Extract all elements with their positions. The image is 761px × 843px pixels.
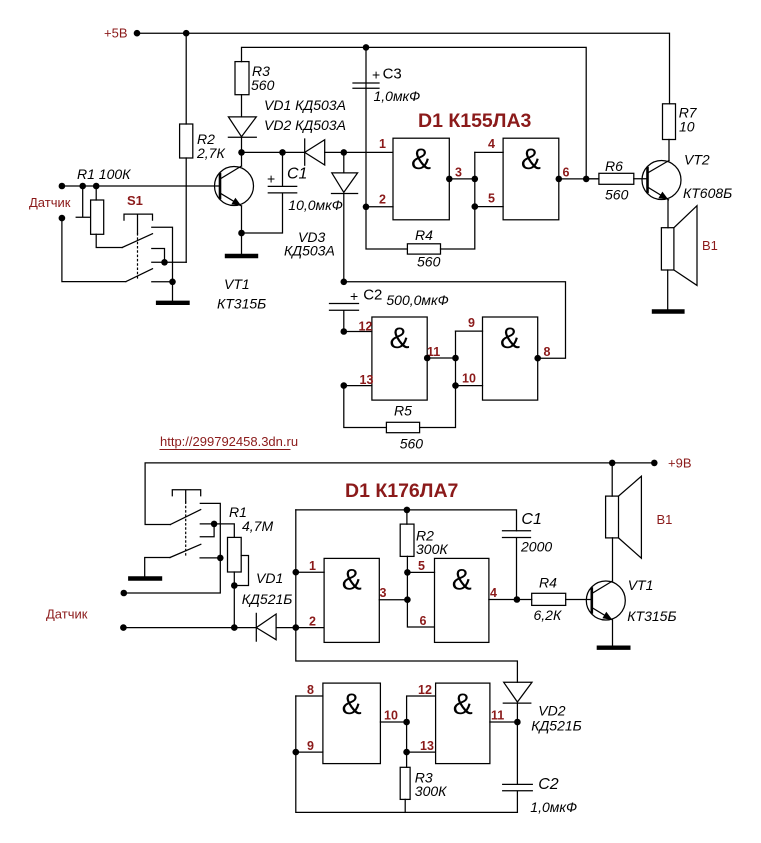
svg-text:КД503А: КД503А [284,243,335,259]
svg-text:VD1 КД503А: VD1 КД503А [264,97,346,113]
svg-text:&: & [342,688,362,721]
wire VD1 to pin 2 [276,627,324,629]
wire VD3 to C2 node [343,194,345,282]
svg-text:8: 8 [544,345,551,359]
pin 12 [341,320,373,335]
svg-text:С2: С2 [538,776,559,793]
pole1 upper contact to terminal wire [124,503,221,593]
node pin2/C3 junction [363,204,370,211]
capacitor C2 1,0mkF (bottom) [503,722,577,815]
svg-text:6: 6 [420,614,427,628]
wire R1 bottom to sensor wire [233,572,235,628]
svg-text:VD2 КД503А: VD2 КД503А [264,117,346,133]
svg-text:300К: 300К [416,541,448,557]
svg-text:10: 10 [462,372,476,386]
svg-text:13: 13 [360,373,374,387]
svg-text:&: & [521,143,541,176]
node VD3 anode junction [341,149,348,156]
pin 9 [456,316,483,331]
node C3 top junction [363,44,370,51]
sensor terminal lower (Datchik, bottom) [46,607,127,631]
wire +5V rail [137,33,670,104]
svg-text:&: & [411,143,431,176]
svg-text:1: 1 [309,559,316,573]
wire VT1 emitter to ground [241,206,243,254]
pin 13 [341,373,374,389]
svg-text:R1 100К: R1 100К [77,166,131,182]
svg-text:КД521Б: КД521Б [531,718,582,734]
gate D1.3 [372,317,427,400]
wire output net rail (R3/C3 to pin6) [242,47,587,179]
svg-text:300К: 300К [415,783,447,799]
pin 10 [380,709,410,726]
pin 11 [490,709,521,726]
wire VT1 emitter to ground [612,620,614,646]
svg-text:4: 4 [490,586,497,600]
wire pin11 to pins 9/10 [455,331,457,386]
S1 pole2 lower contact [152,281,173,283]
svg-text:D1 К155ЛА3: D1 К155ЛА3 [418,110,532,132]
svg-text:VT2: VT2 [684,152,710,168]
svg-text:КТ315Б: КТ315Б [627,608,676,624]
node R1 top junction [93,183,100,190]
svg-text:С1: С1 [287,166,307,183]
S1 pole2 upper contact wire to R2 branch [152,261,186,263]
wire C3 to pin2 node [365,88,367,207]
svg-text:D1 К176ЛА7: D1 К176ЛА7 [345,480,458,502]
sensor terminal upper (Datchik) [29,183,71,210]
svg-text:Датчик: Датчик [46,607,88,622]
pin 1 (bottom) [293,559,325,576]
node C1 top junction [279,149,286,156]
svg-text:4,7М: 4,7М [242,518,273,534]
power terminal +5V [104,26,140,41]
pin 5 [407,559,434,573]
transistor VT1 KT315B (bottom) [586,577,676,624]
pin 6 [556,166,599,183]
svg-text:5: 5 [488,192,495,206]
gate D1.1 [393,138,449,220]
resistor R7 10 [663,104,698,140]
ground at switch (bottom) [130,576,160,580]
node ground-side contact junction [217,555,224,562]
svg-text:VD2: VD2 [538,703,565,719]
svg-text:4: 4 [488,137,495,151]
capacitor C2 500mkF [330,287,449,332]
svg-text:Датчик: Датчик [29,195,71,210]
capacitor C1 [242,152,343,233]
svg-text:6: 6 [563,166,570,180]
S1 pole1 lower contact [152,249,165,263]
resistor R1 4,7M [228,504,274,572]
svg-text:12: 12 [418,683,432,697]
gate D1.3 (bottom) [323,683,381,764]
resistor R3 300K (bottom) [400,767,447,812]
svg-text:13: 13 [420,739,434,753]
wire R1 bottom to S1 pole1 arm [96,234,122,247]
svg-text:2: 2 [309,615,316,629]
R1 wiper tap [234,556,248,586]
resistor R2 300K [400,524,448,557]
capacitor C3 [353,47,420,104]
svg-text:10: 10 [679,119,695,135]
pole2 lower contact [200,557,220,559]
ground under S1 [158,301,187,305]
switch S1 [122,193,152,282]
node wiper junction [79,183,86,190]
svg-text:R5: R5 [394,403,412,419]
wire sensor terminal to VD1 [123,627,256,629]
wire pin3 to pins 4/5 [474,152,476,206]
wire pins 8/9 left vertical to bottom rail [296,696,518,812]
svg-text:+9В: +9В [668,456,692,471]
svg-text:6,2К: 6,2К [534,607,562,623]
wire pin10 node vertical (pin12 / pin13 / R3) [407,696,436,767]
wire lower terminal to S1 pole2 arm [62,218,126,282]
svg-text:VT1: VT1 [224,276,250,292]
diode VD1 KD503A [228,97,346,137]
svg-text:+: + [267,171,275,187]
wire top rail of IC (pins 1, R2, C1) [296,510,517,531]
svg-text:R6: R6 [605,158,623,174]
gate D1.2 (bottom) [435,558,489,642]
node speaker branch junction [609,460,616,467]
wire R7 to VT2 collector [668,140,670,161]
svg-text:3: 3 [455,166,462,180]
svg-text:5: 5 [418,559,425,573]
switch S (bottom) [170,490,201,558]
node pole2 contact junction [211,521,218,528]
diode VD2 KD503A [264,117,346,165]
svg-text:VD1: VD1 [256,570,283,586]
resistor R4 560 feedback [366,207,475,270]
node C2 top junction [341,279,348,286]
resistor R6 560 [586,158,647,203]
R1 wiper tap [76,186,90,217]
resistor R2 2,7K [180,124,226,161]
svg-text:B1: B1 [702,238,718,253]
pin 13 [403,739,435,755]
svg-text:10,0мкФ: 10,0мкФ [288,197,343,213]
node R1 bottom junction [231,582,238,589]
wire VT1 collector [241,152,243,166]
svg-text:1,0мкФ: 1,0мкФ [374,88,421,104]
svg-text:&: & [342,563,362,596]
svg-text:8: 8 [307,683,314,697]
gate D1.4 (bottom) [436,683,490,764]
svg-text:КТ608Б: КТ608Б [683,185,732,201]
resistor R4 6,2K [532,575,592,624]
svg-text:9: 9 [307,739,314,753]
svg-text:500,0мкФ: 500,0мкФ [386,292,448,308]
svg-text:КТ315Б: КТ315Б [217,296,266,312]
pin 8 [534,345,550,362]
svg-text:2: 2 [379,193,386,207]
pin 11 [424,345,459,361]
node contact junction [161,259,168,266]
sensor terminal upper (bottom circuit) [121,590,128,597]
pin 3 [446,166,478,183]
node pin2 junction (bottom) [293,624,300,631]
node junction on +5V rail [183,30,190,37]
pole2 upper contact [200,524,214,537]
svg-text:http://299792458.3dn.ru: http://299792458.3dn.ru [160,434,298,449]
S1 pole1 upper contact to ground [152,227,173,301]
wire C2 node to pin 8 [344,282,566,358]
wire VD1 to collector node [241,137,243,152]
ground under speaker B1 [654,309,682,313]
svg-text:9: 9 [468,316,475,330]
svg-text:&: & [389,322,409,355]
pin 8 [296,683,323,697]
site link [160,434,298,450]
wire R3 to VD1 [241,95,243,117]
sensor terminal lower [59,215,66,222]
gate D1.4 [483,317,538,400]
wire sensor to VT1 base [62,185,220,187]
svg-text:560: 560 [400,436,424,452]
gate D1.2 [503,138,559,220]
resistor R1 100K [77,166,131,234]
svg-text:&: & [452,563,472,596]
pin 3 (bottom) [379,586,410,603]
svg-text:+: + [372,67,380,83]
node VT1 collector junction [238,149,245,156]
speaker B1 (bottom) [606,463,673,558]
gate D1.1 (bottom) [324,558,379,642]
node ground vertical junction [169,279,176,286]
svg-text:560: 560 [605,187,629,203]
svg-text:С2: С2 [363,287,382,304]
svg-text:560: 560 [417,254,441,270]
svg-text:R4: R4 [415,227,433,243]
svg-text:КД521Б: КД521Б [242,591,293,607]
wire left vertical pins 1/2/VD2 route [296,510,518,682]
node emitter/C1 junction [238,230,245,237]
wire VT1 collector to speaker [612,538,614,581]
diode VD1 KD521B [242,570,293,641]
wire VD2 to gate pin 1 [325,151,393,153]
transistor VT1 KT315B [215,166,267,312]
node R1/VD1 junction [231,624,238,631]
svg-text:+5В: +5В [104,26,128,41]
svg-text:С1: С1 [521,511,541,528]
svg-text:B1: B1 [657,512,673,527]
svg-text:S1: S1 [127,193,143,208]
pin 10 [452,372,482,389]
wire pin1 node to VD3 [343,152,345,173]
svg-text:1,0мкФ: 1,0мкФ [530,799,577,815]
wire R1 top lead [95,186,97,200]
pin 4 [475,137,503,152]
capacitor C1 2000 [503,511,553,600]
diode VD3 KD503A [284,173,358,259]
ground under VT1 [227,254,256,258]
svg-text:1: 1 [379,137,386,151]
svg-text:2000: 2000 [520,539,552,555]
ground under VT1 (bottom) [599,646,628,650]
svg-text:10: 10 [384,709,398,723]
svg-text:R4: R4 [539,575,557,591]
svg-text:3: 3 [380,586,387,600]
svg-text:С3: С3 [383,66,402,83]
wire pole2 arm to ground [145,558,170,577]
wire speaker to ground [667,270,669,310]
pin 4 [489,586,532,603]
wire R2 leads / pins 5,6 vertical [407,510,435,627]
wire VT2 emitter to speaker [667,200,669,228]
svg-text:2,7К: 2,7К [196,145,225,161]
transistor VT2 KT608B [642,152,732,202]
svg-text:+: + [350,288,358,304]
svg-text:VT1: VT1 [628,577,654,593]
svg-text:560: 560 [251,77,275,93]
pole1 lower contact wire to R1 top [200,524,234,538]
pin 2 [366,193,393,207]
power terminal +9V [651,456,692,471]
resistor R5 560 feedback [344,386,456,452]
diode VD2 KD521B [503,682,581,733]
wire +5V to R2 to S1 [185,33,187,262]
node pin5 junction [404,569,411,576]
node R2 top junction [404,507,411,514]
svg-text:&: & [500,322,520,355]
pin 9 [293,739,323,755]
svg-text:&: & [453,688,473,721]
wire +9V rail [145,463,654,525]
svg-text:11: 11 [491,709,504,723]
wire collector node to VD2 [242,151,305,153]
pin 5 [472,192,504,210]
speaker B1 (top) [661,206,718,286]
resistor R3 [235,62,275,95]
